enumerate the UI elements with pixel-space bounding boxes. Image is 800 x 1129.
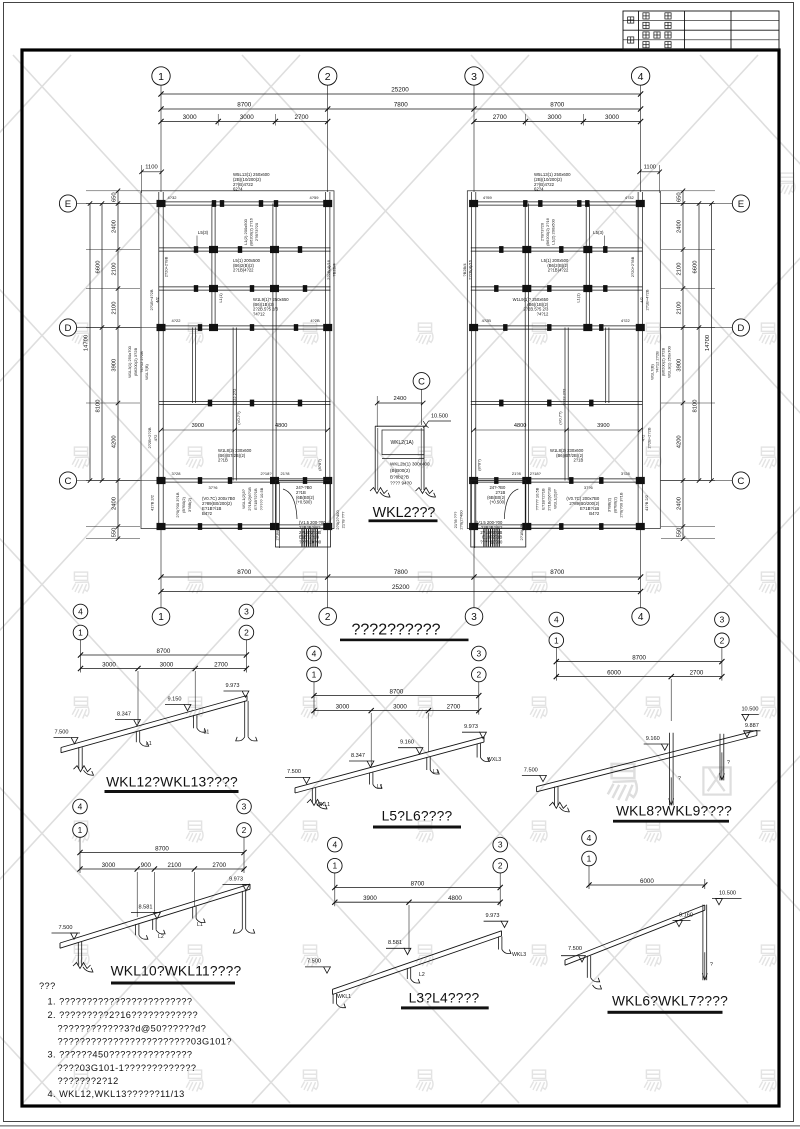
svg-text:1: 1 bbox=[78, 628, 83, 638]
svg-text:???? 94?0: ???? 94?0 bbox=[390, 481, 412, 486]
WKL8-WKL9 grid circles left bbox=[549, 612, 564, 627]
svg-text:1100: 1100 bbox=[644, 165, 656, 171]
WKL8-WKL9 dim line 1 bbox=[555, 647, 557, 680]
WKL12-WKL13 dim line 2 bbox=[81, 668, 247, 670]
svg-text:WKL2(1A): WKL2(1A) bbox=[390, 440, 413, 446]
svg-text:L5(3): L5(3) bbox=[198, 230, 209, 235]
svg-text:(B6200(2) 2?16: (B6200(2) 2?16 bbox=[249, 217, 254, 246]
svg-text:14700: 14700 bbox=[705, 335, 711, 351]
svg-text:4: 4 bbox=[78, 802, 83, 812]
svg-text:???: ??? bbox=[39, 981, 56, 991]
svg-text:8.347: 8.347 bbox=[351, 753, 365, 759]
right plan columns bbox=[636, 200, 645, 207]
svg-text:(8?8?): (8?8?) bbox=[317, 459, 322, 471]
bottom gray strip bbox=[0, 1125, 800, 1127]
svg-text:2700: 2700 bbox=[447, 703, 461, 710]
svg-text:7.500: 7.500 bbox=[568, 946, 582, 952]
left plan interior dim 3900/4800 bbox=[161, 429, 328, 431]
left plan horizontal beams bbox=[159, 201, 331, 203]
svg-text:6?22 2?2: 6?22 2?2 bbox=[561, 388, 566, 405]
svg-text:2: 2 bbox=[498, 861, 503, 871]
grid circle 1 bottom bbox=[152, 608, 170, 626]
svg-text:9.973: 9.973 bbox=[464, 724, 478, 730]
svg-text:E?1B?2?1B: E?1B?2?1B bbox=[540, 488, 545, 510]
svg-text:4?2: 4?2 bbox=[153, 434, 158, 441]
WKL10-WKL11 support at x=154.4 bbox=[152, 919, 154, 930]
svg-text:2100: 2100 bbox=[112, 302, 118, 315]
svg-text:3?8B(2): 3?8B(2) bbox=[187, 497, 192, 512]
svg-text:B4?2: B4?2 bbox=[589, 511, 600, 516]
svg-text:2?1B)4?22: 2?1B)4?22 bbox=[233, 268, 254, 273]
L3-L4 support at x=500.2 bbox=[498, 937, 500, 950]
svg-text:3: 3 bbox=[242, 802, 247, 812]
svg-text:21?8: 21?8 bbox=[281, 471, 291, 476]
svg-text:9.973: 9.973 bbox=[226, 683, 240, 689]
svg-text:?: ? bbox=[678, 776, 681, 782]
title block characters bbox=[628, 17, 634, 23]
L5-L6 support at x=428.5 bbox=[426, 757, 428, 770]
svg-text:2400: 2400 bbox=[394, 396, 407, 402]
svg-text:8700: 8700 bbox=[632, 654, 646, 661]
svg-text:?B2B/4: ?B2B/4 bbox=[332, 263, 337, 277]
svg-text:2?18?: 2?18? bbox=[260, 471, 272, 476]
svg-text:2?1B)4?22: 2?1B)4?22 bbox=[548, 268, 569, 273]
svg-text:3900: 3900 bbox=[597, 423, 609, 429]
svg-text:8100: 8100 bbox=[693, 400, 699, 413]
svg-text:L1: L1 bbox=[146, 741, 152, 747]
svg-text:WKL2???: WKL2??? bbox=[373, 505, 436, 521]
svg-text:3: 3 bbox=[720, 615, 725, 625]
WKL12-WKL13 support at x=246.4 bbox=[244, 701, 246, 737]
svg-text:E?1B?2?1B: E?1B?2?1B bbox=[253, 488, 258, 510]
svg-text:2: 2 bbox=[242, 825, 247, 835]
L5-L6 grid circles left bbox=[307, 646, 322, 661]
svg-text:2: 2 bbox=[720, 635, 725, 645]
right row circles E D C bbox=[732, 195, 749, 212]
WKL12-WKL13 support at x=80.5 bbox=[78, 747, 80, 769]
svg-text:25200: 25200 bbox=[392, 584, 410, 591]
svg-text:2?1B+4?2B: 2?1B+4?2B bbox=[149, 289, 154, 310]
svg-text:3. ??????450???????????????: 3. ??????450??????????????? bbox=[48, 1050, 193, 1060]
svg-text:????? 10.5B: ????? 10.5B bbox=[534, 487, 539, 510]
svg-text:(8?8?): (8?8?) bbox=[476, 459, 481, 471]
svg-text:1: 1 bbox=[78, 825, 83, 835]
svg-text:4: 4 bbox=[638, 71, 644, 83]
svg-text:2?1B(4B): 2?1B(4B) bbox=[519, 523, 524, 541]
svg-text:L2: L2 bbox=[419, 972, 425, 978]
svg-text:4?2B: 4?2B bbox=[310, 318, 320, 323]
svg-text:3900: 3900 bbox=[363, 895, 377, 902]
svg-text:3900: 3900 bbox=[677, 359, 683, 372]
WKL12-WKL13 support at x=138 bbox=[135, 731, 137, 742]
svg-text:4?59: 4?59 bbox=[483, 195, 493, 200]
right plan vertical beams bbox=[637, 192, 639, 529]
svg-text:3000: 3000 bbox=[336, 703, 350, 710]
L5-L6 support at x=478.8 bbox=[476, 744, 478, 758]
svg-text:6?22 2?2: 6?22 2?2 bbox=[232, 388, 237, 405]
svg-text:7.500: 7.500 bbox=[524, 767, 538, 773]
svg-text:4: 4 bbox=[638, 612, 644, 623]
svg-text:W1L3(1) 250x700: W1L3(1) 250x700 bbox=[666, 345, 671, 378]
svg-text:8700: 8700 bbox=[155, 845, 169, 852]
left plan vertical beams bbox=[158, 192, 160, 529]
svg-text:?4?12: ?4?12 bbox=[537, 311, 549, 316]
svg-text:????????????????????????03G101: ????????????????????????03G101? bbox=[58, 1037, 232, 1047]
L5-L6 grid circles right bbox=[472, 646, 487, 661]
svg-text:7.500: 7.500 bbox=[59, 925, 73, 931]
left plan wall stubs bbox=[212, 200, 216, 207]
L3-L4 dim line 1 bbox=[334, 873, 336, 907]
svg-text:2?2B+2?2B: 2?2B+2?2B bbox=[147, 427, 152, 448]
svg-text:2700: 2700 bbox=[690, 669, 704, 676]
WKL12-WKL13 sloped beam bbox=[61, 696, 247, 748]
svg-text:9.160: 9.160 bbox=[679, 912, 693, 918]
svg-text:L1(1): L1(1) bbox=[575, 293, 580, 303]
right plan stair box bbox=[471, 481, 526, 548]
svg-text:?4?12: ?4?12 bbox=[253, 311, 265, 316]
WKL10-WKL11 grid circles left bbox=[73, 799, 88, 814]
svg-text:41?B 2/2: 41?B 2/2 bbox=[150, 494, 155, 511]
grid line 3 extension top bbox=[473, 85, 475, 192]
svg-text:8700: 8700 bbox=[411, 880, 425, 887]
svg-text:2?20+2?8B: 2?20+2?8B bbox=[630, 256, 635, 277]
svg-text:L1(2) 200x500: L1(2) 200x500 bbox=[550, 218, 555, 245]
right plan interior dim 3900/4800 bbox=[474, 429, 641, 431]
svg-text:8700: 8700 bbox=[550, 569, 565, 576]
svg-text:3?28: 3?28 bbox=[172, 471, 182, 476]
svg-text:3000: 3000 bbox=[240, 114, 255, 121]
grid line 4 extension top bbox=[640, 85, 642, 192]
svg-text:4/2: 4/2 bbox=[639, 296, 644, 302]
svg-text:4/2: 4/2 bbox=[155, 296, 160, 302]
svg-text:2: 2 bbox=[476, 670, 481, 680]
svg-text:3: 3 bbox=[471, 612, 477, 623]
svg-text:4200: 4200 bbox=[677, 435, 683, 448]
svg-text:(+0.500): (+0.500) bbox=[296, 500, 312, 505]
svg-text:C: C bbox=[737, 476, 744, 487]
svg-text:W1L7(B): W1L7(B) bbox=[144, 363, 149, 379]
svg-text:62?4: 62?4 bbox=[233, 187, 243, 192]
grid circle 2 top bbox=[319, 67, 337, 85]
svg-text:3000: 3000 bbox=[160, 661, 174, 668]
svg-text:4?22: 4?22 bbox=[172, 318, 182, 323]
svg-text:6000: 6000 bbox=[607, 669, 621, 676]
svg-text:2: 2 bbox=[244, 628, 249, 638]
svg-text:D: D bbox=[65, 323, 72, 334]
WKL6-WKL7 grid circles left bbox=[582, 831, 597, 846]
svg-text:3: 3 bbox=[244, 607, 249, 617]
svg-text:W1L3(1) 250x700: W1L3(1) 250x700 bbox=[127, 345, 132, 378]
L3-L4 sloped beam bbox=[333, 931, 502, 990]
WKL6-WKL7 dim line 1 bbox=[588, 865, 590, 889]
right dim chain mid 6600/8100 bbox=[698, 204, 700, 481]
left plan columns bbox=[157, 200, 166, 207]
svg-text:7.500: 7.500 bbox=[307, 959, 321, 965]
svg-text:8.581: 8.581 bbox=[388, 940, 402, 946]
svg-text:7.500: 7.500 bbox=[55, 730, 69, 736]
svg-text:8.581: 8.581 bbox=[139, 905, 153, 911]
svg-text:8700: 8700 bbox=[390, 688, 404, 695]
svg-text:1: 1 bbox=[158, 71, 164, 83]
svg-text:650: 650 bbox=[112, 192, 118, 202]
svg-text:(V0.7?): (V0.7?) bbox=[236, 411, 241, 425]
right dim chain inner bbox=[682, 191, 684, 539]
left dim chain outer 14700 bbox=[89, 204, 91, 481]
WKL8-WKL9 support at x=671.25 bbox=[668, 733, 670, 806]
WKL10-WKL11 sloped beam bbox=[60, 884, 250, 943]
svg-text:(B6200(2) 3?2B: (B6200(2) 3?2B bbox=[133, 348, 138, 377]
svg-text:2?18?: 2?18? bbox=[530, 471, 542, 476]
L5-L6 support at x=314 bbox=[311, 788, 313, 803]
svg-text:4?59: 4?59 bbox=[310, 195, 320, 200]
WKL8-WKL9 grid circles right bbox=[715, 612, 730, 627]
svg-text:1100: 1100 bbox=[145, 165, 157, 171]
svg-text:W1L1(2)3?: W1L1(2)3? bbox=[552, 488, 557, 509]
svg-text:9.973: 9.973 bbox=[229, 877, 243, 883]
svg-text:???????2?12: ???????2?12 bbox=[58, 1076, 119, 1086]
grid circle 4 bottom bbox=[632, 608, 650, 626]
svg-text:6600: 6600 bbox=[96, 261, 102, 274]
WKL10-WKL11 dim line 2 bbox=[80, 868, 244, 870]
L3-L4 support at x=409 bbox=[406, 968, 408, 979]
WKL10-WKL11 dim line 1 bbox=[79, 837, 81, 873]
svg-text:WKL1: WKL1 bbox=[337, 994, 351, 1000]
svg-text:3900: 3900 bbox=[192, 423, 204, 429]
svg-text:B4?2: B4?2 bbox=[202, 511, 213, 516]
svg-text:(+0.500): (+0.500) bbox=[490, 500, 506, 505]
svg-text:1: 1 bbox=[312, 670, 317, 680]
svg-text:10.500: 10.500 bbox=[431, 414, 448, 420]
svg-text:????????????3?d@50??????d?: ????????????3?d@50??????d? bbox=[58, 1023, 207, 1033]
right plan outline (eave) bbox=[467, 191, 660, 529]
svg-text:2?2B+2?2B: 2?2B+2?2B bbox=[646, 427, 651, 448]
WKL10-WKL11 support at x=80 bbox=[77, 942, 79, 966]
svg-text:2?B?3?20: 2?B?3?20 bbox=[539, 222, 544, 241]
WKL2 detail dim 2400 bbox=[377, 402, 423, 404]
svg-text:2700: 2700 bbox=[212, 862, 226, 869]
WKL6-WKL7 sloped beam bbox=[565, 905, 705, 960]
svg-text:14700: 14700 bbox=[84, 335, 90, 351]
svg-text:???? 10?00: ???? 10?00 bbox=[299, 540, 322, 545]
WKL2 detail grid circle C bbox=[413, 373, 430, 390]
svg-text:4?32: 4?32 bbox=[168, 195, 178, 200]
svg-text:(B6200(2) 3?2B: (B6200(2) 3?2B bbox=[660, 348, 665, 377]
top dimension 2700 3000 3000 right bbox=[474, 121, 641, 123]
svg-text:1: 1 bbox=[158, 612, 164, 623]
svg-text:W1L7(B): W1L7(B) bbox=[649, 363, 654, 379]
svg-text:9.150: 9.150 bbox=[168, 697, 182, 703]
svg-text:WKL6?WKL7????: WKL6?WKL7???? bbox=[612, 994, 728, 1009]
svg-text:37?6: 37?6 bbox=[584, 485, 594, 490]
L5-L6 dim line 2 bbox=[314, 710, 479, 712]
svg-text:L1: L1 bbox=[197, 922, 203, 928]
svg-text:4800: 4800 bbox=[275, 423, 287, 429]
svg-text:8700: 8700 bbox=[237, 569, 252, 576]
svg-text:2?20+2?8B: 2?20+2?8B bbox=[164, 256, 169, 277]
svg-text:WKL10?WKL11????: WKL10?WKL11???? bbox=[111, 964, 242, 979]
svg-text:4?2: 4?2 bbox=[640, 434, 645, 441]
right plan wall stubs bbox=[585, 200, 589, 207]
top dimension 3000 3000 2700 left bbox=[161, 121, 328, 123]
svg-text:9.973: 9.973 bbox=[486, 913, 500, 919]
left dim chain inner bbox=[117, 191, 119, 539]
WKL8-WKL9 support at x=556.3 bbox=[554, 787, 556, 806]
svg-text:4800: 4800 bbox=[448, 895, 462, 902]
grid circle 3 top bbox=[465, 67, 483, 85]
svg-text:2100: 2100 bbox=[677, 263, 683, 276]
svg-text:2?1B(2)6?1B: 2?1B(2)6?1B bbox=[247, 487, 252, 511]
svg-text:????? 10.5B: ????? 10.5B bbox=[259, 487, 264, 510]
svg-text:10.500: 10.500 bbox=[719, 890, 736, 896]
svg-text:2?2B(4)/16: 2?2B(4)/16 bbox=[326, 259, 331, 280]
svg-text:4: 4 bbox=[554, 615, 559, 625]
svg-text:WXL3: WXL3 bbox=[487, 757, 501, 763]
svg-text:37?6: 37?6 bbox=[209, 485, 219, 490]
svg-text:2?B?3?20: 2?B?3?20 bbox=[254, 222, 259, 241]
svg-text:4: 4 bbox=[312, 649, 317, 659]
svg-text:2?0(?00 3?1B: 2?0(?00 3?1B bbox=[175, 492, 180, 517]
WKL10-WKL11 support at x=244 bbox=[241, 891, 243, 929]
WKL10-WKL11 support at x=194.4 bbox=[192, 907, 194, 919]
WKL10-WKL11 grid circles right bbox=[237, 799, 252, 814]
grid circle 4 top bbox=[631, 67, 649, 85]
svg-text:3?8B(2): 3?8B(2) bbox=[606, 497, 611, 512]
svg-text:2?0(2?400: 2?0(2?400 bbox=[458, 510, 463, 530]
svg-text:8700: 8700 bbox=[157, 648, 171, 655]
svg-text:4?22: 4?22 bbox=[621, 318, 631, 323]
left dim chain mid 6600/8100 bbox=[101, 204, 103, 481]
svg-text:8700: 8700 bbox=[237, 102, 252, 109]
svg-text:WKL12?WKL13????: WKL12?WKL13???? bbox=[106, 775, 238, 790]
svg-text:4800: 4800 bbox=[514, 423, 526, 429]
svg-text:WKL2b(1) 300x400: WKL2b(1) 300x400 bbox=[390, 462, 430, 467]
WKL8-WKL9 dim line 2 bbox=[556, 676, 722, 678]
svg-text:4?2B: 4?2B bbox=[482, 318, 492, 323]
L5-L6 sloped beam bbox=[295, 737, 484, 788]
svg-text:D: D bbox=[737, 323, 744, 334]
left row circles E D C bbox=[59, 195, 76, 212]
svg-text:3000: 3000 bbox=[393, 703, 407, 710]
svg-text:?4?12 2?2B: ?4?12 2?2B bbox=[654, 351, 659, 373]
WKL6-WKL7 support at x=704.8 bbox=[702, 905, 704, 981]
bottom dims 8700 7800 8700 bbox=[161, 576, 641, 578]
svg-text:2?1B(2)6?1B: 2?1B(2)6?1B bbox=[546, 487, 551, 511]
svg-text:2: 2 bbox=[325, 612, 331, 623]
svg-text:10.500: 10.500 bbox=[741, 706, 758, 712]
svg-text:W1L1(2)3?: W1L1(2)3? bbox=[241, 488, 246, 509]
svg-text:62?4: 62?4 bbox=[534, 187, 544, 192]
svg-text:650: 650 bbox=[677, 192, 683, 202]
svg-text:3: 3 bbox=[471, 71, 477, 83]
svg-text:E: E bbox=[738, 199, 744, 210]
svg-text:L1: L1 bbox=[433, 769, 439, 775]
svg-text:2. ?????????2?16????????????: 2. ?????????2?16???????????? bbox=[48, 1010, 199, 1020]
svg-text:????03G101-1?????????????: ????03G101-1????????????? bbox=[58, 1063, 197, 1073]
svg-text:?: ? bbox=[710, 962, 713, 968]
svg-text:7800: 7800 bbox=[394, 102, 409, 109]
dim 1100 right plan bbox=[640, 171, 660, 173]
svg-text:3000: 3000 bbox=[102, 862, 116, 869]
svg-text:9.160: 9.160 bbox=[646, 736, 660, 742]
svg-text:25200: 25200 bbox=[391, 87, 409, 94]
svg-text:8100: 8100 bbox=[96, 400, 102, 413]
svg-text:(B?B0(2): (B?B0(2) bbox=[612, 496, 617, 513]
svg-text:WKL1: WKL1 bbox=[316, 802, 330, 808]
svg-text:3: 3 bbox=[476, 649, 481, 659]
svg-text:2: 2 bbox=[325, 71, 331, 83]
svg-text:L1(1): L1(1) bbox=[218, 293, 223, 303]
svg-text:3000: 3000 bbox=[102, 661, 116, 668]
title block table bbox=[623, 11, 779, 50]
svg-text:L5?L6????: L5?L6???? bbox=[382, 809, 453, 824]
svg-text:C: C bbox=[65, 476, 72, 487]
svg-text:2?1B: 2?1B bbox=[218, 458, 228, 463]
svg-text:4: 4 bbox=[587, 833, 592, 843]
dim 1100 left plan bbox=[142, 171, 162, 173]
svg-text:(V0.7?): (V0.7?) bbox=[557, 411, 562, 425]
svg-text:???2??????: ???2?????? bbox=[352, 622, 441, 639]
grid circle 2 bottom bbox=[319, 608, 337, 626]
svg-text:8700: 8700 bbox=[550, 102, 565, 109]
WKL12-WKL13 dim line 1 bbox=[80, 639, 82, 672]
svg-text:2?1B: 2?1B bbox=[574, 458, 584, 463]
right plan horizontal beams bbox=[471, 201, 643, 203]
WKL8-WKL9 sloped beam bbox=[537, 730, 757, 786]
L3-L4 grid circles left bbox=[328, 837, 343, 852]
svg-text:900: 900 bbox=[141, 862, 152, 869]
grid line 2 extension top bbox=[327, 85, 329, 192]
svg-text:6600: 6600 bbox=[693, 261, 699, 274]
svg-text:1: 1 bbox=[332, 861, 337, 871]
svg-text:L1(2) 200x500: L1(2) 200x500 bbox=[243, 218, 248, 245]
svg-text:2400: 2400 bbox=[112, 220, 118, 233]
svg-text:E: E bbox=[65, 199, 71, 210]
bottom dim 25200 bbox=[161, 591, 641, 593]
WKL12-WKL13 grid circles right bbox=[239, 604, 254, 619]
svg-text:2700: 2700 bbox=[493, 114, 508, 121]
L3-L4 grid circles right bbox=[493, 837, 508, 852]
svg-text:2100: 2100 bbox=[677, 302, 683, 315]
WKL2 detail beam outline bbox=[375, 425, 427, 427]
svg-text:41?B 2/2: 41?B 2/2 bbox=[644, 494, 649, 511]
svg-text:2?1B+4?2B: 2?1B+4?2B bbox=[644, 289, 649, 310]
grid circle 3 bottom bbox=[465, 608, 483, 626]
svg-text:2?2B(4)/16: 2?2B(4)/16 bbox=[467, 259, 472, 280]
svg-text:3: 3 bbox=[498, 840, 503, 850]
svg-text:2700: 2700 bbox=[214, 661, 228, 668]
svg-text:4. WKL12,WKL13??????11/13: 4. WKL12,WKL13??????11/13 bbox=[48, 1089, 185, 1099]
WKL6-WKL7 support at x=589 bbox=[586, 956, 588, 978]
svg-text:2700: 2700 bbox=[294, 114, 309, 121]
svg-text:21?8 ???: 21?8 ??? bbox=[453, 511, 458, 528]
svg-text:2400: 2400 bbox=[677, 497, 683, 510]
svg-text:L5(3): L5(3) bbox=[593, 230, 604, 235]
svg-text:6000: 6000 bbox=[640, 878, 654, 885]
left plan stair box bbox=[276, 481, 331, 548]
svg-text:21?8 ???: 21?8 ??? bbox=[341, 511, 346, 528]
svg-text:1. ????????????????????????: 1. ???????????????????????? bbox=[48, 997, 193, 1007]
svg-text:1: 1 bbox=[554, 635, 559, 645]
svg-text:3000: 3000 bbox=[183, 114, 198, 121]
svg-text:9.887: 9.887 bbox=[745, 723, 759, 729]
svg-text:???? 10?00: ???? 10?00 bbox=[480, 540, 503, 545]
svg-text:L2: L2 bbox=[158, 934, 164, 940]
svg-text:(B?B0(2): (B?B0(2) bbox=[181, 496, 186, 513]
svg-text:WKL3: WKL3 bbox=[512, 952, 526, 958]
top dimension 25200 bbox=[161, 93, 641, 95]
grid circle 1 top bbox=[152, 67, 170, 85]
svg-text:2100: 2100 bbox=[168, 862, 182, 869]
